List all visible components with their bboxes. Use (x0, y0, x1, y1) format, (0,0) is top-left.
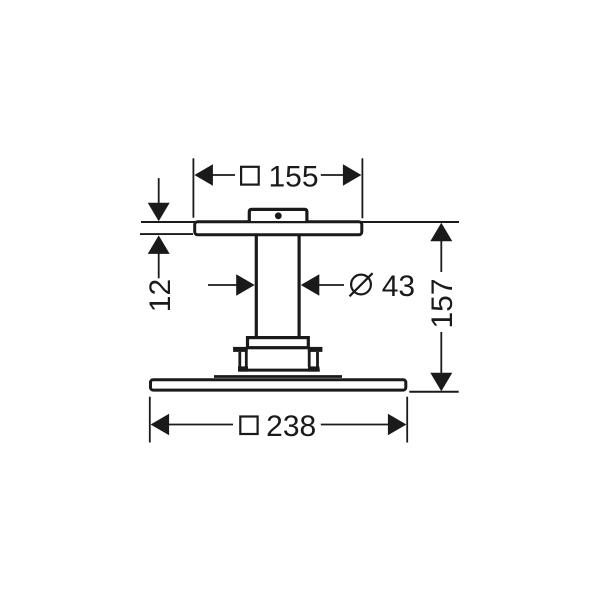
dimension 155: square symbol (241, 167, 259, 185)
shower arm pipe left wall (255, 236, 258, 337)
connector bottom line (239, 369, 320, 372)
connector right inner wall (308, 348, 311, 367)
dimension 43: right-pointing arrow (236, 274, 255, 296)
connector right tab (308, 347, 323, 352)
connector right outer wall (316, 352, 319, 367)
dimension 155: right extension line (361, 158, 363, 218)
dimension 238: right extension line (406, 397, 408, 443)
connector left inner wall (245, 348, 248, 367)
dimension 43: diameter symbol circle (351, 275, 371, 295)
flange dot (275, 212, 282, 219)
dimension 238: left arrow (151, 414, 170, 436)
dimension 155: dim line left segment (206, 174, 235, 176)
dimension 12: up arrow (148, 235, 170, 254)
dimension 157: upper dim line (440, 239, 442, 272)
spray plate step band (214, 375, 342, 378)
svg-text:238: 238 (266, 410, 316, 443)
dimension 238: left extension line (149, 397, 151, 443)
connector box (248, 338, 309, 348)
dimension 157: down arrow (430, 373, 452, 392)
svg-text:12: 12 (144, 279, 177, 312)
dimension 12: lower dim line (158, 253, 160, 278)
dimension 157: up arrow (430, 223, 452, 242)
dimension 155: dim line right segment (321, 174, 350, 176)
dimension 43: diameter symbol slash (350, 273, 373, 296)
connector left outer wall (238, 352, 241, 367)
dimension 12: down arrow (148, 203, 170, 222)
ceiling reference line (141, 221, 459, 223)
ceiling flange (249, 209, 307, 221)
lower thickness reference line (left) (140, 233, 193, 235)
svg-text:155: 155 (268, 160, 318, 193)
dimension 43: left-pointing arrow (301, 274, 320, 296)
connector left foot (238, 366, 248, 371)
dimension 43: left dim line (208, 284, 237, 286)
dimension 238: dim line left segment (168, 424, 233, 426)
dimension 157: lower dim line (440, 332, 442, 374)
dimension 238: square symbol (240, 417, 257, 435)
svg-text:43: 43 (382, 270, 415, 303)
dimension 157: bottom reference line (409, 391, 458, 393)
shower arm pipe right wall (298, 236, 301, 337)
svg-text:157: 157 (426, 278, 459, 328)
dimension 12: upper dim line (158, 178, 160, 204)
spray plate (151, 380, 406, 390)
connector right foot (308, 366, 319, 371)
dimension 238: dim line right segment (321, 424, 389, 426)
top escutcheon plate (195, 222, 362, 235)
dimension 238: right arrow (388, 414, 407, 436)
dimension 155: left arrow (194, 164, 213, 186)
dimension 43: right dim line (318, 284, 344, 286)
connector left tab (233, 347, 248, 352)
dimension 155: left extension line (192, 158, 194, 217)
dimension 155: right arrow (343, 164, 362, 186)
